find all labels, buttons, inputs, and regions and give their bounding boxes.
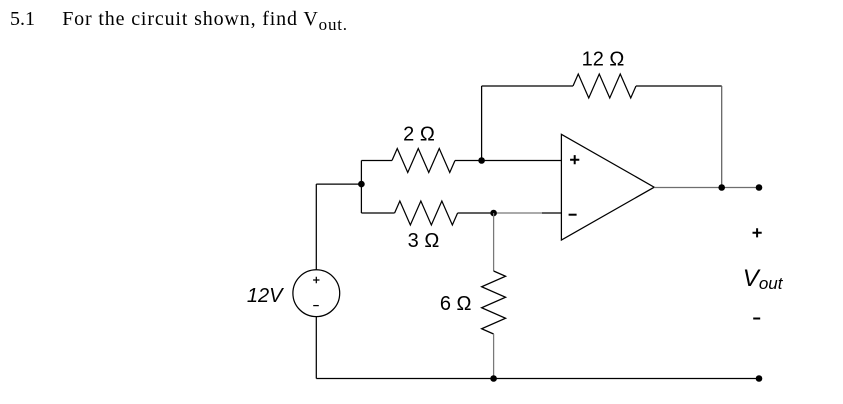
resistor R1 2 ohm [392, 149, 455, 173]
op-amp minus input sign [569, 214, 577, 216]
op-amp plus input sign [570, 155, 579, 164]
label output minus [753, 318, 760, 320]
wire R2 to inverting node [458, 212, 494, 214]
wire bottom rail [316, 378, 759, 380]
terminal dot bottom right [756, 375, 763, 382]
svg-text:3 Ω: 3 Ω [408, 230, 440, 252]
resistor R3 6 ohm [482, 271, 506, 334]
junction dot output feedback [718, 184, 725, 191]
wire source top to node A [316, 183, 361, 185]
wire R3 to bottom rail [493, 334, 495, 379]
svg-text:Vout: Vout [743, 265, 784, 293]
wire inverting node to op-amp pin [494, 212, 542, 214]
wire op-amp output [654, 187, 759, 189]
wire node A vertical [360, 161, 362, 214]
svg-text:For the circuit shown, find Vo: For the circuit shown, find Vout. [62, 8, 348, 34]
wire feedback top-left segment [482, 85, 573, 87]
wire node A to R2 [361, 212, 394, 214]
wire feedback left vertical [481, 86, 483, 161]
wire source negative lead [315, 317, 317, 379]
junction dot noninverting node [478, 157, 485, 164]
resistor R2 3 ohm [395, 201, 458, 225]
wire inverting node down to R3 [493, 213, 495, 271]
source plus sign [313, 277, 319, 283]
svg-text:5.1: 5.1 [10, 8, 35, 30]
title text [10, 8, 348, 34]
resistor R_f 12 ohm [573, 74, 636, 98]
voltage source V1 12V [293, 270, 340, 317]
junction dot node A [358, 181, 365, 188]
wire source positive lead [315, 184, 317, 270]
wire R1 to op-amp noninverting input [455, 160, 561, 162]
wire op-amp inverting pin stub [542, 212, 561, 214]
op-amp U1 [561, 134, 654, 240]
wire from node A to R1 [361, 160, 392, 162]
junction dot bottom rail [490, 375, 497, 382]
svg-text:12 Ω: 12 Ω [582, 49, 625, 71]
label output plus [753, 228, 762, 237]
source minus sign [313, 305, 319, 307]
svg-text:12V: 12V [247, 285, 284, 307]
svg-text:2 Ω: 2 Ω [403, 124, 435, 146]
svg-text:6 Ω: 6 Ω [440, 293, 472, 315]
wire feedback top-right segment [636, 85, 722, 87]
terminal dot output [756, 184, 763, 191]
wire feedback right vertical [721, 86, 723, 188]
junction dot inverting node [490, 210, 497, 217]
